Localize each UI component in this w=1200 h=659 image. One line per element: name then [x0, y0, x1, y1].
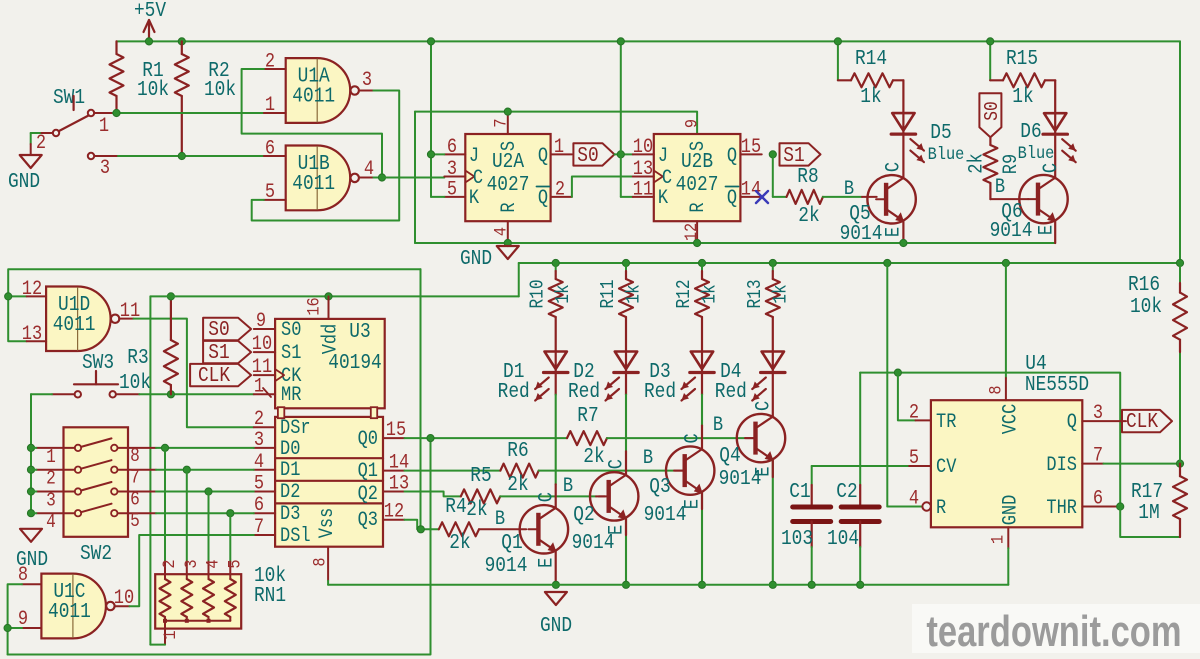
svg-text:C: C — [535, 492, 558, 502]
svg-text:10: 10 — [633, 136, 653, 159]
junction mid rail 555 reset drop — [884, 259, 891, 266]
wire D1 to Q1 collector — [555, 373, 557, 395]
wire R9 to Q6 base — [990, 198, 1028, 200]
wire Q3 row to R4 — [405, 520, 439, 530]
svg-text:Q4: Q4 — [719, 444, 740, 468]
junction Q4 emitter gnd — [769, 581, 776, 588]
global label S0 above R9 — [979, 93, 1001, 137]
resistor R17 — [1179, 464, 1181, 477]
svg-text:DIS: DIS — [1046, 454, 1077, 477]
svg-text:S0: S0 — [208, 318, 229, 342]
resistor R16 — [1179, 263, 1181, 293]
junction U2A R pin gnd — [504, 239, 511, 246]
junction RN1 pin4 tap — [205, 488, 212, 495]
svg-text:10k: 10k — [204, 78, 236, 102]
junction U2A S pin — [504, 108, 511, 115]
svg-text:2k: 2k — [449, 531, 470, 555]
junction U2B J node — [617, 151, 624, 158]
svg-text:10: 10 — [252, 333, 272, 356]
svg-text:6: 6 — [265, 137, 275, 160]
junction U2A J — [427, 151, 434, 158]
wire SW1 pin2 to ground — [40, 132, 53, 134]
wire R7 to Q4 base — [607, 437, 745, 439]
svg-text:2k: 2k — [507, 473, 528, 497]
wire U2A Qbar to U2B clock — [572, 177, 633, 197]
svg-text:3: 3 — [362, 69, 372, 92]
ic U4 NE555D — [931, 400, 1082, 527]
global label S0 at U3 — [203, 318, 251, 340]
svg-text:U2A: U2A — [492, 150, 524, 174]
svg-text:5: 5 — [225, 559, 245, 568]
junction mid rail R12 — [698, 259, 705, 266]
ground GND at SW1 — [20, 155, 42, 168]
wire U1C inputs tie to Q0 net — [8, 584, 22, 654]
wire U2A Q to U2B J — [614, 153, 632, 155]
wire D6 to Q6 collector — [1054, 134, 1056, 178]
svg-text:C: C — [606, 459, 629, 469]
svg-text:3: 3 — [182, 559, 202, 568]
switch SW2 pole 1 — [75, 445, 81, 451]
junction C1 gnd — [808, 581, 815, 588]
svg-text:DSl: DSl — [280, 525, 311, 548]
svg-text:R6: R6 — [507, 439, 528, 463]
svg-text:4: 4 — [909, 487, 919, 510]
svg-text:Vss: Vss — [316, 508, 339, 539]
wire SW3 left to gnd column — [31, 393, 52, 395]
pin stubs U3 right — [383, 437, 405, 439]
junction C2 gnd — [857, 581, 864, 588]
svg-text:SW3: SW3 — [82, 351, 114, 375]
svg-text:12: 12 — [384, 500, 404, 523]
svg-text:3: 3 — [100, 157, 110, 180]
svg-text:7: 7 — [254, 516, 264, 539]
switch SW2 pole 4 — [75, 510, 81, 516]
ic U3 40194 lower section — [275, 417, 383, 547]
junction U2B R pin gnd — [694, 239, 701, 246]
svg-text:4: 4 — [254, 451, 264, 474]
svg-text:1: 1 — [265, 94, 275, 117]
junction top rail at +5V — [145, 38, 152, 45]
wire 555 gnd pin to gnd row — [1007, 548, 1009, 585]
svg-text:MR: MR — [281, 384, 301, 407]
resistor R8 — [787, 190, 823, 204]
svg-text:3: 3 — [447, 158, 457, 181]
svg-text:Q: Q — [538, 187, 548, 210]
svg-text:9014: 9014 — [840, 222, 883, 246]
junction R3 bottom — [167, 391, 174, 398]
svg-text:R: R — [936, 497, 946, 520]
wire Q1 emitter to gnd — [555, 551, 557, 585]
junction top rail at R2 — [178, 38, 185, 45]
junction U1B output — [378, 174, 385, 181]
svg-text:Red: Red — [498, 380, 530, 404]
svg-text:2: 2 — [555, 178, 565, 201]
svg-text:R: R — [498, 202, 521, 212]
svg-text:Q3: Q3 — [649, 475, 670, 499]
svg-text:R: R — [687, 202, 710, 212]
svg-text:15: 15 — [741, 136, 761, 159]
svg-text:GND: GND — [540, 614, 572, 638]
svg-text:D3: D3 — [280, 503, 300, 526]
svg-text:Q1: Q1 — [501, 531, 522, 555]
junction mid rail R13 — [769, 259, 776, 266]
wire Q3 net vertical V1 — [420, 269, 422, 529]
transistor Q6 — [1019, 175, 1067, 223]
svg-text:CLK: CLK — [198, 364, 230, 388]
junction U2B Q node — [769, 151, 776, 158]
nand gate U1D — [46, 287, 111, 352]
svg-text:K: K — [469, 187, 480, 210]
junction SW2 pin1 gnd — [27, 444, 34, 451]
svg-text:1k: 1k — [860, 85, 881, 109]
capacitor C2 — [859, 373, 861, 485]
svg-text:3: 3 — [46, 490, 56, 512]
svg-text:U2B: U2B — [681, 150, 713, 174]
no-connect X at U2B pin 14 — [756, 191, 768, 203]
svg-text:7: 7 — [130, 468, 140, 490]
wire gnd column SW2 — [30, 394, 32, 513]
svg-text:J: J — [658, 145, 668, 168]
svg-text:R4: R4 — [445, 495, 466, 519]
svg-text:Q: Q — [727, 187, 737, 210]
pin stubs U4 — [916, 419, 931, 421]
svg-text:GND: GND — [8, 170, 40, 194]
svg-text:6: 6 — [130, 489, 140, 511]
resistor R9 — [989, 137, 991, 145]
wire row SW1-1 R1 U1A-1 — [113, 112, 264, 114]
pin stubs U3 left lower — [254, 426, 275, 428]
svg-text:B: B — [995, 176, 1005, 199]
junction RN1 pin3 tap — [183, 466, 190, 473]
wire R6 to Q3 base — [539, 470, 674, 472]
svg-text:Q2: Q2 — [573, 503, 594, 527]
svg-text:1: 1 — [46, 447, 56, 469]
svg-text:U3: U3 — [349, 320, 370, 344]
svg-text:CLK: CLK — [1126, 410, 1158, 434]
resistor R12 — [701, 263, 703, 271]
svg-text:D5: D5 — [930, 121, 951, 145]
svg-text:11: 11 — [633, 178, 653, 201]
wire D4 to Q4 collector — [772, 373, 774, 417]
svg-text:R10: R10 — [528, 279, 550, 308]
svg-text:+5V: +5V — [134, 0, 166, 22]
wire D3 to Q3 collector — [701, 373, 703, 395]
svg-text:9: 9 — [256, 310, 266, 333]
svg-text:3: 3 — [254, 429, 264, 452]
wire Q6 emitter to gnd row end — [1054, 221, 1056, 243]
svg-text:Q0: Q0 — [358, 428, 378, 451]
wire R8 to Q5 base — [823, 196, 862, 198]
wire gnd vertical left of U2A — [414, 112, 416, 243]
pin stubs U2A — [444, 153, 465, 155]
svg-text:5: 5 — [909, 447, 919, 470]
svg-text:1: 1 — [99, 115, 109, 138]
nand gate U1C — [41, 574, 106, 639]
svg-text:Q2: Q2 — [358, 483, 378, 506]
jk flip-flop U2B — [654, 134, 741, 221]
svg-text:S0: S0 — [577, 144, 598, 168]
svg-text:S0: S0 — [281, 319, 301, 342]
svg-text:R12: R12 — [674, 279, 696, 308]
led D5 — [892, 113, 914, 131]
junction mid rail VCC drop — [1002, 259, 1009, 266]
wire R14 to D5 — [902, 80, 904, 113]
svg-text:Q3: Q3 — [358, 509, 378, 532]
svg-text:5: 5 — [254, 472, 264, 495]
svg-text:D2: D2 — [280, 481, 300, 504]
svg-text:13: 13 — [22, 323, 42, 346]
svg-text:10k: 10k — [1130, 295, 1162, 319]
svg-text:12: 12 — [682, 223, 702, 241]
svg-text:Red: Red — [568, 380, 600, 404]
watermark background — [912, 604, 1200, 653]
svg-text:S0: S0 — [982, 101, 1004, 120]
ground GND below U2A — [497, 246, 519, 259]
svg-text:6: 6 — [1093, 487, 1103, 510]
svg-text:10k: 10k — [137, 78, 169, 102]
wire Q3 emitter to gnd — [701, 492, 703, 585]
svg-text:C: C — [662, 167, 672, 190]
svg-text:B: B — [495, 508, 505, 531]
wire CV row to C1 — [812, 465, 910, 467]
svg-text:2k: 2k — [965, 153, 988, 173]
wire +5V rail to U2A J K — [430, 41, 432, 197]
resistor R6 — [500, 464, 538, 478]
svg-text:104: 104 — [827, 527, 859, 551]
svg-text:5: 5 — [265, 181, 275, 204]
transistor Q4 — [737, 414, 785, 462]
resistor R4 — [439, 522, 479, 536]
svg-text:SW1: SW1 — [53, 86, 85, 110]
svg-text:C: C — [473, 167, 483, 190]
switch SW2 body — [64, 427, 129, 537]
wire Q2 row to R5 — [405, 492, 461, 497]
junction SW2 pin3 gnd — [27, 488, 34, 495]
svg-text:103: 103 — [781, 527, 813, 551]
svg-text:1k: 1k — [1012, 85, 1033, 109]
svg-text:E: E — [606, 525, 629, 535]
svg-text:15: 15 — [386, 419, 406, 442]
svg-text:D1: D1 — [280, 459, 300, 482]
svg-text:6: 6 — [447, 136, 457, 159]
wire right edge +5V drop — [1179, 41, 1181, 263]
wire R5 to Q2 base — [500, 495, 596, 497]
wire TR jog to pin2 — [898, 373, 916, 421]
transistor Q3 — [666, 446, 714, 494]
svg-text:7: 7 — [1093, 444, 1103, 467]
svg-text:4: 4 — [203, 559, 223, 568]
wire Q5 emitter to gnd row — [902, 221, 904, 243]
resistor R3 — [170, 296, 172, 340]
pin stubs U2B — [633, 153, 654, 155]
transistor Q2 — [590, 472, 638, 520]
svg-text:2k: 2k — [466, 498, 487, 522]
wire Q2 emitter to gnd — [625, 518, 627, 585]
svg-text:R14: R14 — [855, 47, 887, 71]
svg-text:TR: TR — [936, 411, 956, 434]
junction Q0 net — [427, 435, 434, 442]
pin1 RN1 to Vdd net — [164, 621, 166, 645]
junction mid rail right edge R16 — [1176, 259, 1183, 266]
svg-text:2: 2 — [909, 401, 919, 424]
svg-text:16: 16 — [304, 297, 324, 315]
svg-text:R11: R11 — [598, 279, 620, 308]
svg-text:1: 1 — [254, 375, 264, 398]
global label CLK at U3 — [190, 364, 251, 386]
junction U1D pin12 — [5, 293, 12, 300]
svg-text:1k: 1k — [699, 284, 721, 303]
svg-text:2: 2 — [265, 50, 275, 73]
svg-text:2k: 2k — [583, 445, 604, 469]
resistor R1 — [115, 41, 117, 54]
ground GND under SW2 column — [20, 529, 42, 542]
svg-text:R5: R5 — [470, 464, 491, 488]
svg-text:RN1: RN1 — [254, 584, 286, 608]
svg-text:1k: 1k — [770, 284, 792, 303]
svg-text:S: S — [498, 141, 521, 151]
jk flip-flop U2A — [465, 134, 550, 221]
svg-text:8: 8 — [986, 385, 1006, 394]
svg-text:9014: 9014 — [990, 219, 1033, 243]
resistor R14 — [837, 41, 839, 80]
pin stub U3 Vss 8 — [327, 547, 329, 581]
wire Q0 net bottom run — [8, 438, 431, 654]
wire Q3 net to U1D inputs — [8, 269, 420, 341]
junction rail at x431 — [427, 38, 434, 45]
junction mid rail R10 — [552, 259, 559, 266]
wire +5V rail to U2B J K — [620, 41, 622, 197]
junction Q1 emitter gnd — [552, 581, 559, 588]
transistor Q1 — [520, 505, 568, 553]
global label S1 at U3 — [203, 341, 251, 363]
svg-text:10k: 10k — [119, 371, 151, 395]
svg-text:5: 5 — [130, 511, 140, 533]
wire U1B output to U2A clock — [382, 177, 444, 179]
nand gate U1A — [286, 58, 351, 123]
svg-text:5: 5 — [447, 178, 457, 201]
svg-text:2: 2 — [46, 469, 56, 491]
transistor Q5 — [867, 175, 915, 223]
junction SW2 pin4 gnd — [27, 510, 34, 517]
svg-text:Q: Q — [727, 145, 737, 168]
wire R4 to Q1 base — [479, 528, 526, 530]
svg-text:D0: D0 — [280, 438, 300, 461]
wire R13 to D4 — [772, 317, 774, 352]
wire R15 to D6 — [1054, 80, 1056, 113]
junction SW2 pin2 gnd — [27, 466, 34, 473]
wire DIS to R16 R17 node — [1104, 463, 1181, 465]
pin stubs U3 left upper — [254, 328, 275, 330]
svg-text:4011: 4011 — [53, 313, 96, 337]
svg-text:Red: Red — [644, 380, 676, 404]
svg-text:Q1: Q1 — [358, 460, 378, 483]
junction R2 bottom — [178, 152, 185, 159]
svg-text:1k: 1k — [623, 284, 645, 303]
svg-text:NE555D: NE555D — [1025, 373, 1089, 397]
wire top +5V rail — [117, 40, 1181, 42]
svg-text:4: 4 — [46, 512, 56, 534]
svg-text:SW2: SW2 — [80, 542, 112, 566]
svg-text:C: C — [752, 401, 775, 411]
svg-text:3: 3 — [1093, 402, 1103, 425]
junction Vdd pin16 — [325, 293, 332, 300]
junction U1C pin9 — [4, 624, 11, 631]
svg-text:DSr: DSr — [280, 417, 311, 440]
svg-text:teardownit.com: teardownit.com — [926, 607, 1181, 656]
svg-text:4: 4 — [491, 227, 511, 236]
svg-text:4011: 4011 — [292, 172, 335, 196]
global label S1 at U2B output — [780, 143, 821, 165]
wire SW3 right to R3 and U3 MR — [139, 393, 254, 395]
switch SW2 pole 2 — [75, 467, 81, 473]
junction Q2 emitter gnd — [622, 581, 629, 588]
svg-text:8: 8 — [130, 446, 140, 468]
svg-text:Q: Q — [1067, 411, 1077, 434]
svg-text:CV: CV — [936, 456, 957, 479]
svg-text:1M: 1M — [1138, 501, 1159, 525]
wire VCC drop to pin8 — [1005, 263, 1007, 378]
svg-text:C: C — [882, 162, 905, 172]
wire R10 to D1 — [555, 317, 557, 352]
svg-text:E: E — [535, 558, 558, 568]
led D2 — [615, 352, 637, 370]
wire S-line gnd net to S pins — [415, 112, 697, 134]
junction DIS R16 R17 — [1176, 460, 1183, 467]
svg-text:6: 6 — [254, 494, 264, 517]
capacitor C1 — [811, 466, 813, 485]
led D6 — [1044, 113, 1066, 131]
svg-text:7: 7 — [491, 118, 511, 127]
svg-text:R8: R8 — [797, 165, 818, 189]
svg-text:J: J — [469, 145, 479, 168]
svg-text:R3: R3 — [127, 346, 148, 370]
svg-text:C1: C1 — [789, 480, 810, 504]
junction Q3 emitter gnd — [698, 581, 705, 588]
wire R11 to D2 — [625, 317, 627, 352]
wire row SW1-3 R2 U1B-6 — [118, 155, 264, 157]
wire U2B Q down to R8 — [772, 154, 774, 197]
svg-text:B: B — [713, 414, 723, 437]
svg-text:4011: 4011 — [292, 84, 335, 108]
resistor R10 — [555, 263, 557, 271]
wire bottom gnd row — [328, 584, 1008, 586]
svg-text:2k: 2k — [798, 204, 819, 228]
svg-text:1: 1 — [554, 136, 564, 159]
wire U1D output to U3 DSr — [134, 319, 254, 428]
wire TR THR link — [860, 372, 898, 374]
junction rail at x621 — [617, 38, 624, 45]
svg-text:B: B — [643, 447, 653, 470]
junction mid rail R11 — [622, 259, 629, 266]
svg-text:12: 12 — [22, 278, 42, 301]
svg-text:S: S — [687, 141, 710, 151]
svg-text:9: 9 — [682, 119, 702, 128]
led D4 — [762, 352, 784, 370]
wire U1B output feedback to U1A pin2 — [373, 177, 382, 179]
junction Q3 net to V1 — [417, 526, 424, 533]
svg-text:E: E — [882, 227, 905, 237]
power +5V symbol — [148, 22, 150, 41]
svg-text:1: 1 — [988, 535, 1008, 544]
resistor R7 — [567, 431, 607, 445]
svg-text:THR: THR — [1046, 497, 1077, 520]
wires SW2 to U3 D pins with RN1 taps — [156, 447, 254, 449]
svg-text:9014: 9014 — [644, 503, 687, 527]
junction RN1 pin5 tap — [227, 510, 234, 517]
led D1 — [545, 352, 567, 370]
svg-text:S1: S1 — [281, 342, 301, 365]
ic U3 40194 upper section — [275, 319, 385, 408]
